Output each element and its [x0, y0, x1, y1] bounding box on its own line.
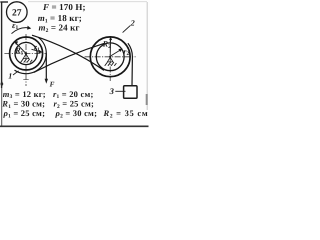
wheel 2 pointer leader: [123, 25, 131, 32]
force F arrowhead: [45, 79, 48, 84]
wheel 2 pivot hatching: [105, 62, 117, 66]
svg-text:R2 = 35 см: R2 = 35 см: [103, 108, 149, 119]
frame faint top border: [28, 1, 147, 3]
svg-text:m2 = 24 кг: m2 = 24 кг: [39, 23, 80, 35]
svg-text:1: 1: [8, 71, 12, 80]
problem number badge circle 27: [6, 2, 27, 23]
right border smudge: [146, 94, 148, 105]
belt upper line: [32, 35, 104, 70]
svg-text:3: 3: [109, 86, 115, 96]
frame left border: [1, 2, 3, 88]
wheel 1 axis tick below: [23, 79, 28, 81]
ink mark on left border: [0, 81, 3, 88]
wheel 1 pointer leader: [13, 71, 19, 75]
frame bottom border: [0, 125, 149, 127]
load pointer leader: [115, 90, 125, 92]
svg-text:F = 170 Н;: F = 170 Н;: [42, 2, 86, 12]
r2 radius arrow: [111, 49, 121, 55]
load rope from wheel 2: [128, 43, 133, 86]
wheel 1 outer circle R1: [10, 37, 43, 70]
wheel 2 center cross vertical: [109, 37, 111, 82]
frame faint right border: [146, 2, 148, 110]
r1 radius arrow: [32, 49, 42, 52]
epsilon1 curved arrow: [12, 28, 31, 34]
belt lower line: [34, 43, 105, 72]
R2 radius arrow: [109, 38, 111, 57]
wheel 2 hub dot: [109, 56, 111, 58]
wheel 1 center cross horizontal: [4, 53, 46, 55]
wheel 1 rope wrap arc: [15, 37, 47, 73]
wheel 1 pivot triangle: [23, 54, 29, 59]
svg-text:27: 27: [12, 7, 22, 18]
R1 radius arrow: [15, 42, 26, 54]
load box 3: [124, 86, 137, 99]
svg-text:2: 2: [130, 19, 135, 28]
svg-text:F: F: [50, 81, 55, 89]
frame top-left corner segment: [0, 1, 8, 3]
wheel 2 outer circle R2: [90, 37, 130, 77]
wheel 2 inner circle r2: [96, 43, 124, 71]
wheel 1 inner circle r1: [15, 42, 37, 64]
wheel 2 pivot triangle: [107, 57, 113, 62]
wheel 1 pivot hatching: [21, 59, 33, 63]
force F rope: [45, 54, 47, 82]
wheel 2 center cross horizontal: [85, 56, 136, 58]
wheel 1 hub dot: [25, 52, 27, 54]
wheel 1 center cross vertical: [25, 34, 27, 86]
